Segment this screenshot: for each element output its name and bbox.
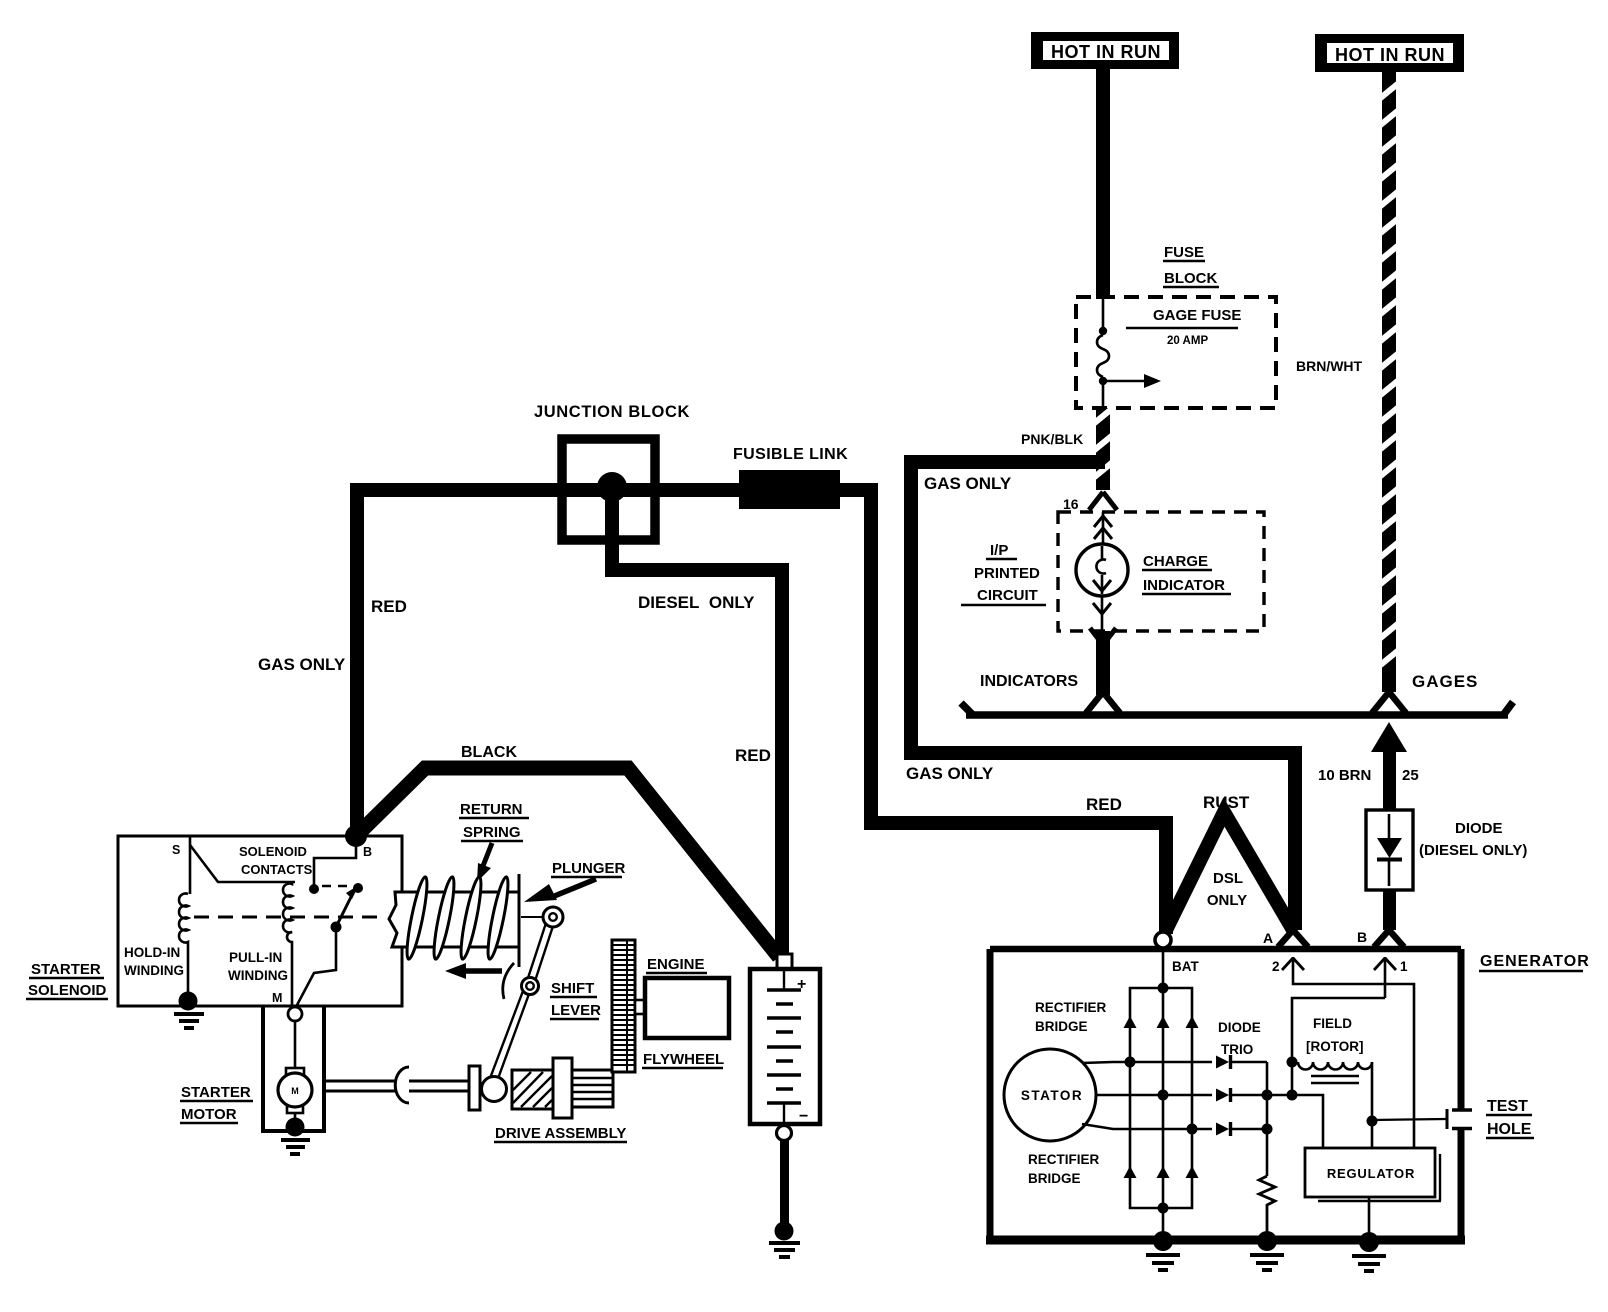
wire: junction block through fusible link <box>612 490 1166 934</box>
generator enclosure <box>986 949 1465 1240</box>
svg-text:FLYWHEEL: FLYWHEEL <box>643 1051 724 1068</box>
svg-text:GAS ONLY: GAS ONLY <box>924 474 1012 493</box>
svg-text:CHARGE: CHARGE <box>1143 553 1208 570</box>
ground: diode trio resistor <box>1250 1231 1284 1270</box>
junction block <box>562 439 655 540</box>
plunger body <box>389 892 519 947</box>
label RECTIFIER BRIDGE (lower) <box>1028 1152 1100 1186</box>
I/P printed circuit label <box>961 542 1046 605</box>
svg-text:RED: RED <box>735 746 771 765</box>
battery negative terminal <box>777 1126 792 1141</box>
svg-text:SHIFT: SHIFT <box>551 980 594 997</box>
svg-text:RED: RED <box>371 597 407 616</box>
battery positive terminal <box>777 954 792 969</box>
wire: gages bus to diode, circuit 25 <box>1371 722 1407 812</box>
svg-text:GAS ONLY: GAS ONLY <box>906 764 994 783</box>
crankshaft stub <box>635 1000 645 1014</box>
svg-text:TEST: TEST <box>1487 1098 1528 1115</box>
diode trio (top) <box>1216 1055 1267 1069</box>
drive assembly <box>469 1058 613 1118</box>
node: trio common bottom <box>1262 1124 1273 1135</box>
ground: battery <box>769 1222 800 1258</box>
wire: trio node to regulator <box>1292 1095 1323 1148</box>
svg-text:SOLENOID: SOLENOID <box>239 844 307 859</box>
svg-text:HOT IN RUN: HOT IN RUN <box>1051 42 1161 62</box>
stator lead (bottom phase) <box>1082 1124 1212 1129</box>
node: contact arm pivot <box>331 922 342 933</box>
label RETURN SPRING with arrow <box>459 801 529 882</box>
fuse GAGE FUSE 20 AMP <box>1097 297 1241 408</box>
wire: charge indicator to indicators bus <box>1086 628 1120 713</box>
label DIODE TRIO <box>1218 1020 1261 1057</box>
svg-text:16: 16 <box>1063 496 1079 512</box>
node: bridge bottom <box>1158 1203 1169 1214</box>
fuse block (dashed box) <box>1076 297 1276 408</box>
diode CR1 (diesel only) <box>1366 810 1413 890</box>
label STARTER MOTOR <box>180 1084 253 1123</box>
diode trio (bottom) <box>1216 1122 1267 1136</box>
connector flare at terminal A <box>1278 930 1308 947</box>
stator lead (top phase) <box>1082 1062 1212 1063</box>
label DRIVE ASSEMBLY <box>494 1125 627 1142</box>
pin 2 connector <box>1282 957 1304 982</box>
terminal M stud <box>288 1007 302 1021</box>
svg-text:M: M <box>272 991 282 1005</box>
dashed centerline <box>194 886 385 917</box>
wire RED (gas only): junction block to starter solenoid B <box>357 490 612 838</box>
svg-text:RETURN: RETURN <box>460 801 523 818</box>
label PULL-IN WINDING <box>228 950 288 983</box>
label SOLENOID CONTACTS <box>239 844 313 877</box>
svg-text:[ROTOR]: [ROTOR] <box>1306 1039 1364 1054</box>
engine block <box>645 978 729 1038</box>
svg-text:TRIO: TRIO <box>1221 1042 1253 1057</box>
node: instrument bus bracket <box>961 702 1513 715</box>
wire RUST: generator BAT to terminal A <box>1166 812 1293 930</box>
svg-text:B: B <box>1357 929 1367 945</box>
wire PNK/BLK (hatched) fuse block to charge indicator <box>1092 407 1114 490</box>
svg-text:DSL: DSL <box>1213 870 1243 887</box>
node: bottom phase / bridge <box>1187 1124 1198 1135</box>
svg-text:RUST: RUST <box>1203 793 1250 812</box>
arrow: plunger travel (left) <box>445 963 502 979</box>
wire: contact arm to M <box>297 927 336 1005</box>
label RECTIFIER BRIDGE (upper) <box>1035 1000 1107 1034</box>
battery BAT1 <box>750 969 820 1125</box>
svg-text:FUSE: FUSE <box>1164 244 1204 261</box>
starter solenoid box <box>118 836 402 1006</box>
test hole contact <box>1447 1109 1472 1129</box>
svg-text:I/P: I/P <box>990 542 1008 559</box>
svg-text:GAS ONLY: GAS ONLY <box>258 655 346 674</box>
svg-text:DRIVE ASSEMBLY: DRIVE ASSEMBLY <box>495 1125 626 1142</box>
fusible link <box>739 470 840 509</box>
contact (fixed right) <box>353 883 363 893</box>
stator <box>1004 1049 1096 1141</box>
label ENGINE <box>646 956 707 973</box>
wire: battery negative to ground <box>780 1140 789 1228</box>
svg-text:20 AMP: 20 AMP <box>1167 335 1208 347</box>
svg-text:DIODE: DIODE <box>1455 820 1503 837</box>
svg-text:SOLENOID: SOLENOID <box>28 982 107 999</box>
svg-text:FUSIBLE LINK: FUSIBLE LINK <box>733 446 848 463</box>
svg-text:GAGE FUSE: GAGE FUSE <box>1153 307 1241 324</box>
diode trio (middle) <box>1216 1088 1292 1102</box>
bridge diodes (upper row) <box>1124 1016 1199 1028</box>
svg-text:INDICATOR: INDICATOR <box>1143 577 1225 594</box>
wire: tap to test hole <box>1372 1119 1446 1120</box>
return spring coils <box>403 876 512 961</box>
svg-text:JUNCTION BLOCK: JUNCTION BLOCK <box>534 403 690 421</box>
ground: regulator <box>1352 1232 1386 1271</box>
wire: B to fixed contact <box>314 843 356 885</box>
rectifier bridge frame <box>1130 988 1192 1208</box>
shift lever <box>489 907 563 1084</box>
label FLYWHEEL <box>642 1051 724 1068</box>
ground: starter motor <box>281 1113 310 1154</box>
wire: pin 1 to field <box>1292 998 1385 1062</box>
pin 1 connector <box>1374 957 1396 998</box>
label STARTER SOLENOID <box>26 961 108 999</box>
svg-text:DIODE: DIODE <box>1218 1020 1261 1035</box>
bridge diodes (lower row) <box>1124 1166 1199 1178</box>
label TEST HOLE <box>1486 1098 1534 1138</box>
wire: field right to regulator <box>1371 1062 1374 1148</box>
svg-text:RECTIFIER: RECTIFIER <box>1028 1152 1100 1167</box>
node: field left / trio <box>1287 1090 1298 1101</box>
svg-text:STARTER: STARTER <box>181 1084 251 1101</box>
wire: diode to generator terminal B <box>1374 890 1404 947</box>
power flag HOT IN RUN (left) <box>1031 32 1179 69</box>
svg-text:FIELD: FIELD <box>1313 1016 1352 1031</box>
wire: M terminal to motor <box>294 1021 297 1070</box>
wire GAS ONLY bypass: PNK/BLK to generator terminal A <box>911 462 1295 930</box>
svg-text:INDICATORS: INDICATORS <box>980 673 1078 690</box>
wire BLACK: solenoid B to battery positive <box>356 768 779 957</box>
svg-text:STARTER: STARTER <box>31 961 101 978</box>
node: field left <box>1287 1057 1298 1068</box>
svg-text:WINDING: WINDING <box>124 963 184 978</box>
node: field right / test hole tap <box>1367 1116 1378 1127</box>
power flag HOT IN RUN (right) <box>1315 34 1464 72</box>
svg-text:B: B <box>363 845 372 859</box>
svg-text:PLUNGER: PLUNGER <box>552 860 626 877</box>
resistor R1 <box>1259 1176 1275 1236</box>
node: bridge top <box>1158 983 1169 994</box>
svg-text:ENGINE: ENGINE <box>647 956 705 973</box>
svg-text:MOTOR: MOTOR <box>181 1106 237 1123</box>
wire BRN/WHT (hatched) to gages bus <box>1372 72 1406 713</box>
svg-text:BRIDGE: BRIDGE <box>1028 1171 1081 1186</box>
svg-text:(DIESEL ONLY): (DIESEL ONLY) <box>1419 842 1527 859</box>
label HOLD-IN WINDING <box>124 945 184 978</box>
contact (fixed left) <box>309 884 319 894</box>
svg-text:RED: RED <box>1086 795 1122 814</box>
svg-text:A: A <box>1263 930 1273 946</box>
terminal BAT stud <box>1155 932 1171 948</box>
svg-text:RECTIFIER: RECTIFIER <box>1035 1000 1107 1015</box>
svg-text:LEVER: LEVER <box>551 1002 601 1019</box>
stator lead (middle phase) <box>1096 1094 1212 1097</box>
hold-in winding <box>179 894 188 1000</box>
svg-text:10 BRN: 10 BRN <box>1318 767 1371 784</box>
charge indicator dashed box <box>1058 512 1264 631</box>
wire: S to windings <box>190 837 295 894</box>
pull-in winding <box>283 882 292 1008</box>
svg-text:REGULATOR: REGULATOR <box>1327 1166 1415 1181</box>
svg-text:ONLY: ONLY <box>1207 892 1247 909</box>
wire: BAT to rectifier bridge and ground <box>1162 948 1165 1237</box>
svg-text:WINDING: WINDING <box>228 968 288 983</box>
svg-text:−: − <box>799 1108 808 1125</box>
armature shaft <box>324 1067 470 1103</box>
svg-text:PULL-IN: PULL-IN <box>229 950 282 965</box>
node: top phase / bridge <box>1125 1057 1136 1068</box>
ground: hold-in winding <box>174 992 204 1029</box>
svg-text:BLACK: BLACK <box>461 744 517 761</box>
node: solenoid B stud <box>345 825 367 847</box>
svg-text:2: 2 <box>1272 959 1280 974</box>
wire: diode trio common <box>1266 1062 1269 1176</box>
plunger centerline to shift lever <box>521 916 545 918</box>
svg-text:BRN/WHT: BRN/WHT <box>1296 358 1363 374</box>
svg-text:CIRCUIT: CIRCUIT <box>977 587 1038 604</box>
svg-text:CONTACTS: CONTACTS <box>241 862 313 877</box>
svg-text:HOLE: HOLE <box>1487 1121 1532 1138</box>
fuse block label <box>1163 244 1219 287</box>
svg-text:HOLD-IN: HOLD-IN <box>124 945 180 960</box>
contact arm (movable) <box>336 885 359 927</box>
svg-text:STATOR: STATOR <box>1021 1088 1083 1103</box>
svg-text:BAT: BAT <box>1172 959 1199 974</box>
node: middle phase / bridge <box>1158 1090 1169 1101</box>
flywheel ring gear <box>612 940 635 1072</box>
svg-text:M: M <box>291 1086 299 1096</box>
svg-text:1: 1 <box>1400 959 1408 974</box>
label PLUNGER with arrow <box>524 860 626 902</box>
ground: rectifier bridge / BAT <box>1146 1231 1180 1270</box>
label DSL ONLY <box>1207 870 1247 909</box>
svg-text:SPRING: SPRING <box>463 824 521 841</box>
svg-text:GAGES: GAGES <box>1412 672 1478 691</box>
label SHIFT LEVER <box>550 980 601 1019</box>
wire DIESEL ONLY: junction block to battery positive <box>612 490 782 958</box>
wire: HOT IN RUN (left) to fuse block, solid <box>1096 69 1110 299</box>
connector flare at charge indicator pin 16 <box>1089 492 1117 510</box>
svg-text:GENERATOR: GENERATOR <box>1480 953 1590 970</box>
plunger face line <box>518 874 521 967</box>
wire: regulator to ground <box>1368 1197 1371 1237</box>
field winding L1 <box>1298 1062 1372 1083</box>
node: trio common middle <box>1262 1090 1273 1101</box>
svg-text:25: 25 <box>1402 767 1419 784</box>
svg-text:DIESEL ONLY: DIESEL ONLY <box>638 593 755 612</box>
label DIODE (DIESEL ONLY) <box>1419 820 1527 859</box>
label GENERATOR <box>1479 953 1590 971</box>
svg-text:BLOCK: BLOCK <box>1164 270 1217 287</box>
svg-text:S: S <box>172 843 180 857</box>
label FIELD (ROTOR) <box>1306 1016 1364 1054</box>
wire: field left to regulator <box>1291 1062 1294 1095</box>
wire: pin 2 to regulator <box>1293 982 1414 1148</box>
starter motor housing <box>263 1007 324 1131</box>
starter motor M1 <box>278 1068 312 1113</box>
charge indicator lamp <box>1076 512 1128 631</box>
svg-text:PNK/BLK: PNK/BLK <box>1021 431 1083 447</box>
svg-text:BRIDGE: BRIDGE <box>1035 1019 1088 1034</box>
node: junction block splice <box>597 472 627 502</box>
charge indicator label <box>1142 553 1231 594</box>
svg-text:HOT IN RUN: HOT IN RUN <box>1335 45 1445 65</box>
svg-text:PRINTED: PRINTED <box>974 565 1040 582</box>
regulator U1 <box>1305 1148 1441 1201</box>
